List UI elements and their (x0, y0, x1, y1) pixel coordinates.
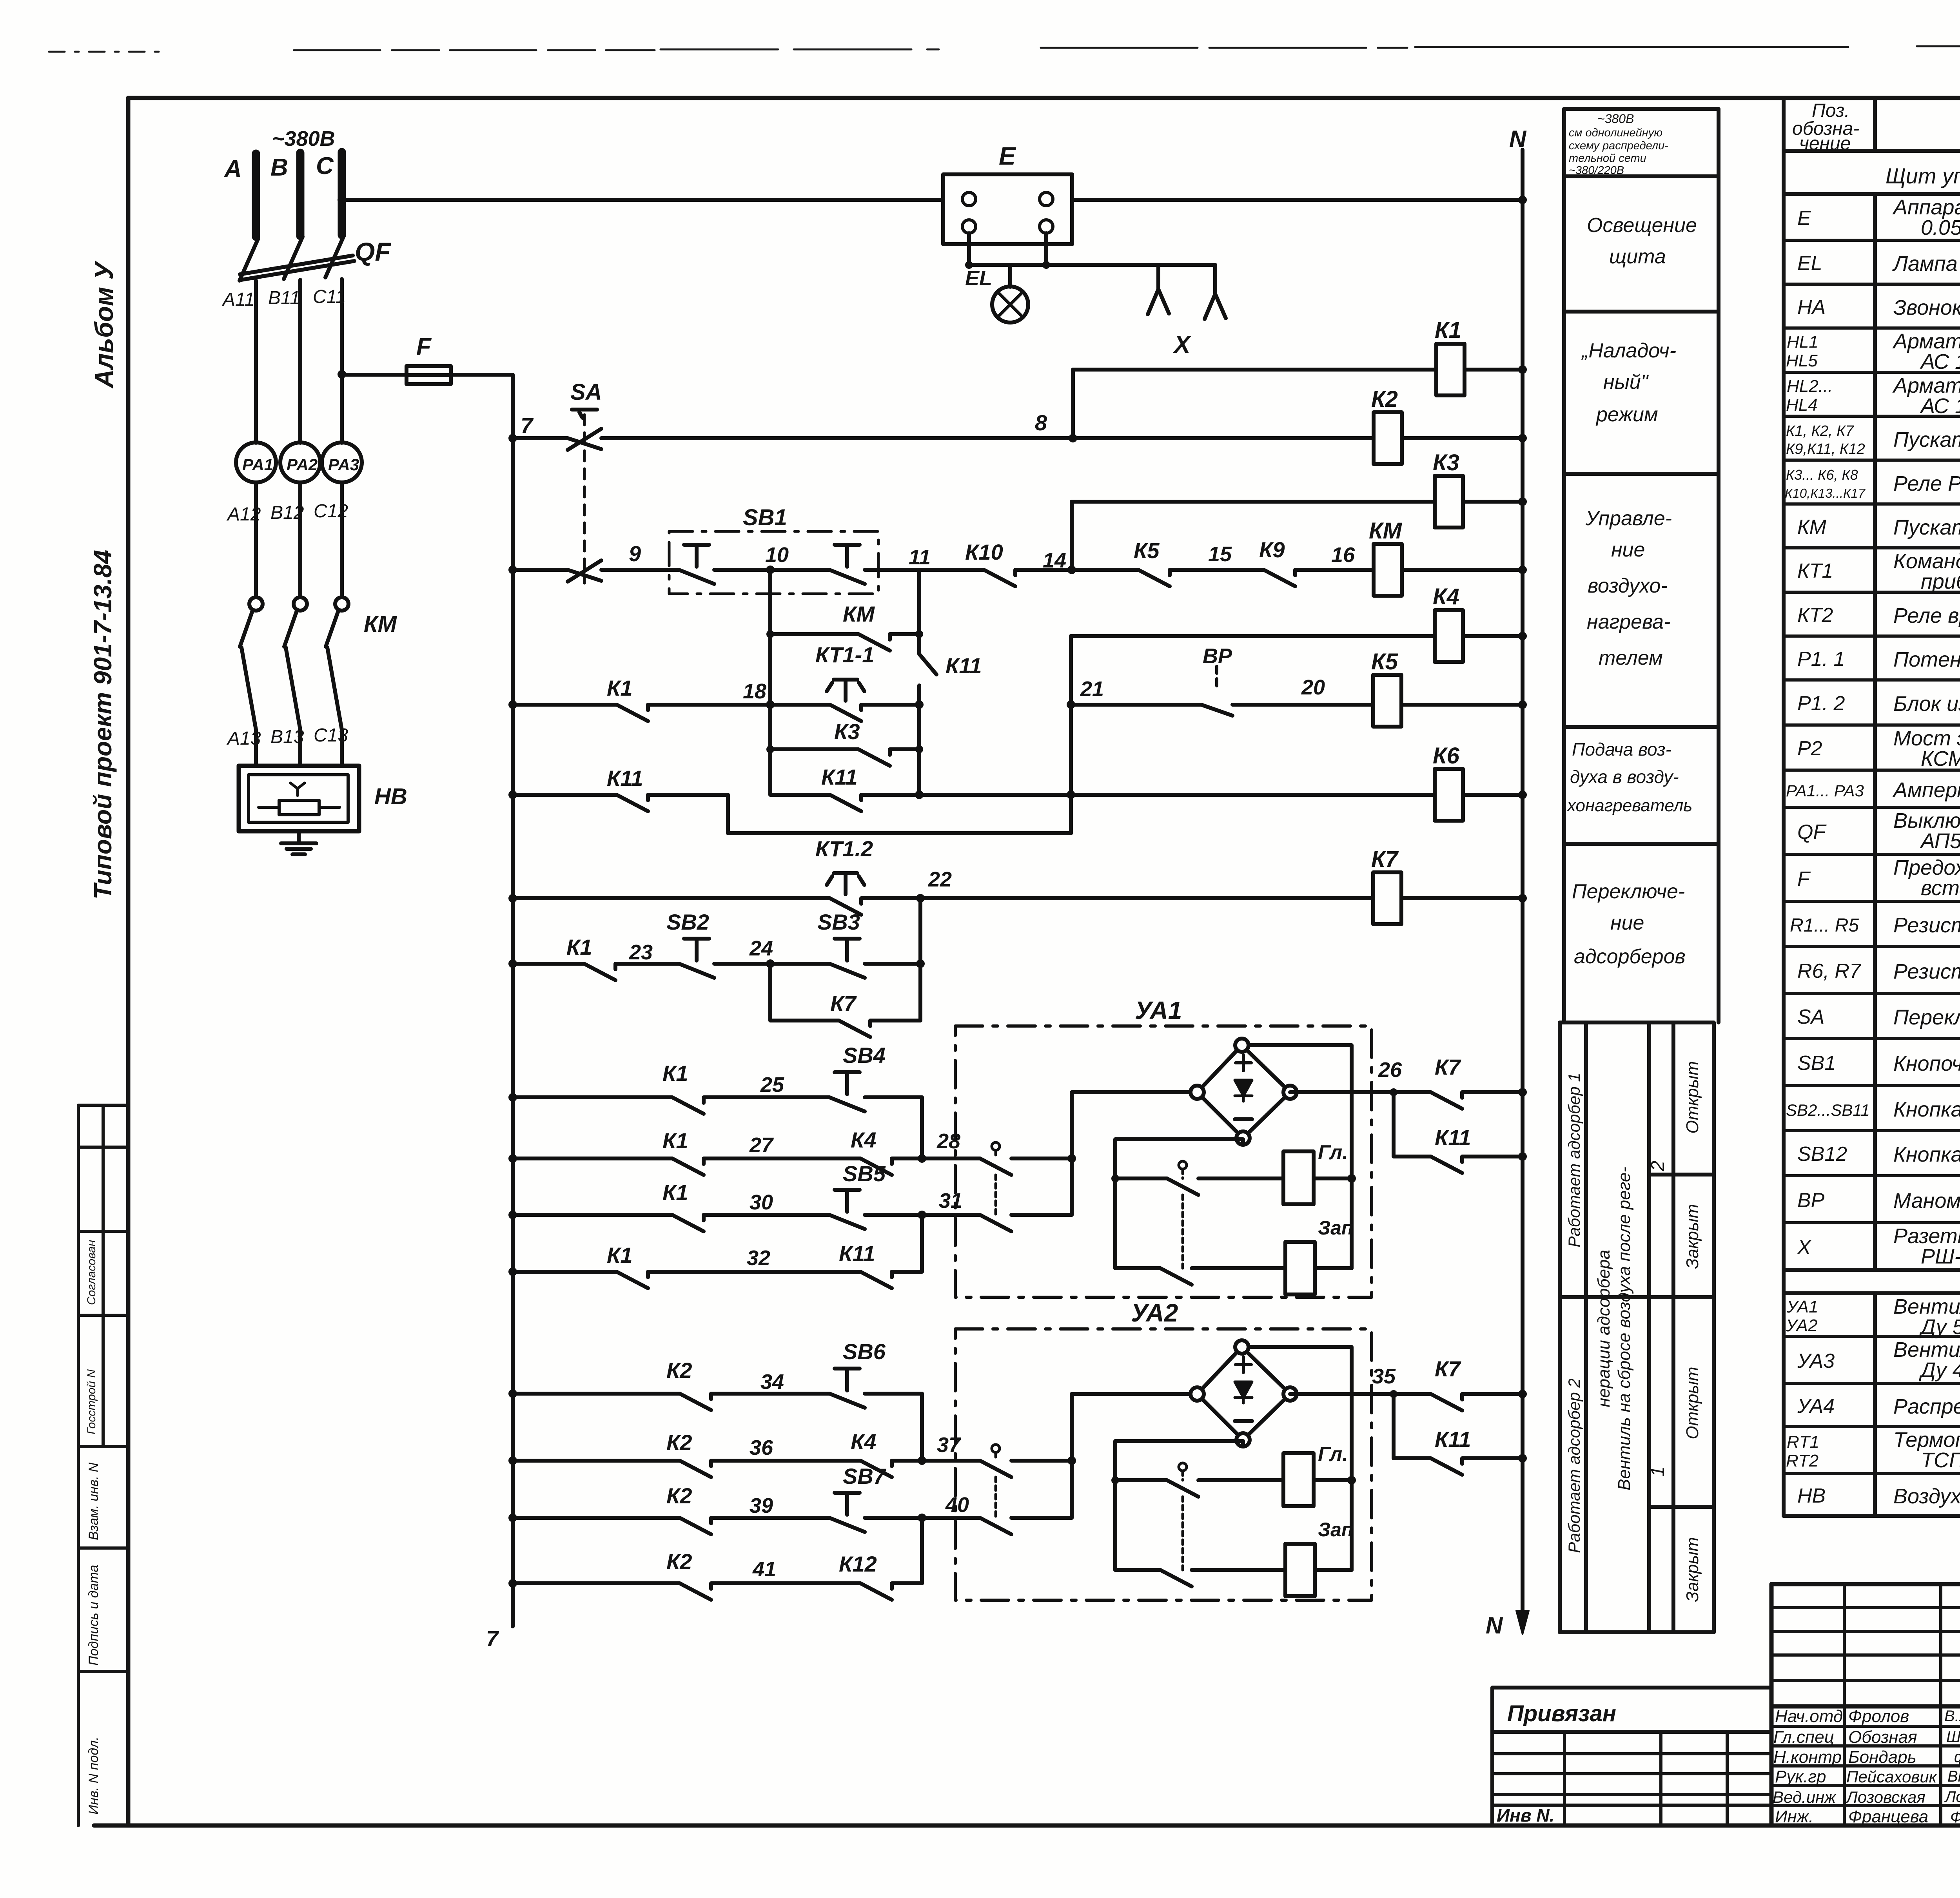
svg-text:Инв N.: Инв N. (1497, 1805, 1554, 1825)
svg-text:С: С (316, 152, 334, 179)
svg-text:SВ4: SВ4 (843, 1043, 886, 1068)
svg-text:Привязан: Привязан (1507, 1701, 1616, 1726)
ammeter PA1 (236, 442, 276, 482)
svg-text:ТСП-5071 гр21 5Ц2 821 320-: ТСП-5071 гр21 5Ц2 821 320-04 (1921, 1448, 1960, 1472)
phase bus B (296, 153, 305, 236)
phase bus A (252, 154, 260, 237)
svg-text:КТ1-1: КТ1-1 (815, 642, 874, 667)
svg-text:К2: К2 (666, 1483, 692, 1508)
rung 41: K12 row (513, 1583, 922, 1600)
svg-text:Выключатель автоматический: Выключатель автоматический (1893, 809, 1960, 832)
svg-text:Переключе-: Переключе- (1572, 880, 1685, 903)
rung 23: SB2 SB3 row (513, 964, 920, 980)
air heater HB box (239, 766, 359, 831)
rung 36: K4 row into YA2 (513, 1461, 922, 1477)
svg-text:26: 26 (1378, 1058, 1402, 1082)
svg-text:SА: SА (570, 379, 602, 405)
svg-text:SВ12: SВ12 (1797, 1143, 1847, 1166)
svg-text:режим: режим (1595, 403, 1658, 426)
svg-text:КТ2: КТ2 (1797, 604, 1833, 627)
svg-text:ВР: ВР (1797, 1189, 1825, 1212)
svg-text:Бондарь: Бондарь (1848, 1748, 1916, 1767)
svg-text:НВ: НВ (1797, 1485, 1826, 1507)
svg-text:Потенциометр самопишущий 5К2.7: Потенциометр самопишущий 5К2.710.006 (1893, 648, 1960, 671)
button SB7 (829, 1493, 865, 1532)
svg-text:Манометр ЭКМ-1У 0-16кг/с: Манометр ЭКМ-1У 0-16кг/см2 (1893, 1189, 1960, 1213)
svg-text:41: 41 (752, 1557, 776, 1581)
contact K7 output YA2 (1431, 1394, 1462, 1410)
svg-text:15: 15 (1208, 542, 1232, 566)
svg-text:40: 40 (945, 1493, 969, 1517)
svg-text:Термопреобразователь сопротив: Термопреобразователь сопротивления (1893, 1428, 1960, 1452)
diode symbol YA2 (1235, 1382, 1252, 1403)
svg-text:SВ5: SВ5 (843, 1161, 886, 1186)
svg-text:схему распредели-: схему распредели- (1569, 140, 1668, 152)
svg-text:Зап: Зап (1318, 1519, 1353, 1541)
svg-text:хонагреватель: хонагреватель (1566, 796, 1692, 815)
switch SA contact 1 (568, 429, 601, 450)
rung 25: SB4 row (513, 1097, 922, 1114)
vertical SB7 row down (920, 1518, 924, 1583)
svg-text:EL: EL (965, 266, 992, 290)
svg-text:SВ7: SВ7 (843, 1464, 887, 1488)
svg-text:35: 35 (1372, 1365, 1396, 1388)
wire C junction to fuse (342, 373, 407, 377)
riser node8 to K1 row (1071, 370, 1075, 438)
svg-text:К12: К12 (839, 1552, 877, 1576)
svg-text:К11: К11 (839, 1241, 875, 1266)
svg-text:Инв. N подл.: Инв. N подл. (86, 1737, 101, 1815)
svg-text:Лозовская: Лозовская (1845, 1788, 1926, 1806)
svg-text:вставкой ВТФ-6: вставкой ВТФ-6 (1921, 876, 1960, 900)
node 10 (766, 566, 775, 574)
svg-text:КМ: КМ (1797, 516, 1827, 538)
vertical from node 11 down with contact K11 (919, 570, 936, 795)
YA2 solenoid loop from bridge bottom (1115, 1441, 1243, 1570)
svg-text:Резистор ПЭВ-25 2.4кОм±10%: Резистор ПЭВ-25 2.4кОм±10% (1893, 914, 1960, 937)
svg-text:В12: В12 (270, 502, 304, 523)
svg-text:RТ2: RТ2 (1786, 1451, 1818, 1470)
rung K4 coil row (1071, 634, 1523, 638)
minus sign YA2 (1235, 1419, 1252, 1423)
svg-text:нагрева-: нагрева- (1587, 611, 1670, 633)
svg-text:Х: Х (1173, 331, 1192, 358)
svg-text:Гл.спец: Гл.спец (1773, 1728, 1834, 1747)
svg-text:HL4: HL4 (1786, 395, 1818, 415)
svg-text:7: 7 (521, 413, 534, 438)
svg-text:QF: QF (355, 237, 391, 266)
rung 8: SA selector row (513, 438, 1523, 449)
heating element inside HB (279, 800, 319, 815)
svg-text:~380В: ~380В (1597, 112, 1634, 126)
svg-text:~380В: ~380В (272, 127, 335, 150)
coil Zap YA1 (1285, 1242, 1315, 1294)
svg-text:ВР: ВР (1203, 644, 1232, 668)
svg-text:К2: К2 (1371, 386, 1398, 412)
svg-text:37: 37 (937, 1433, 962, 1457)
svg-text:см однолинейную: см однолинейную (1569, 127, 1662, 139)
svg-text:В: В (270, 154, 288, 181)
svg-text:АП50Б-3МУ3 Iр=40А: АП50Б-3МУ3 Iр=40А (1920, 829, 1960, 853)
svg-text:N: N (1509, 126, 1527, 152)
svg-text:К1: К1 (607, 676, 633, 700)
node on C at top rail (338, 196, 346, 204)
left stamp column table (78, 1105, 128, 1825)
star symbol inside HB (290, 783, 305, 796)
branch contact K3 (770, 749, 919, 766)
YA1 lower limit switch to Zap coil (1115, 1268, 1285, 1285)
node 8 (1069, 434, 1077, 442)
svg-text:RТ1: RТ1 (1787, 1432, 1819, 1452)
svg-text:0.05кВ.А 220/36В: 0.05кВ.А 220/36В (1921, 216, 1960, 239)
svg-text:К2: К2 (666, 1549, 692, 1574)
svg-text:нерации адсорбера: нерации адсорбера (1594, 1250, 1613, 1407)
svg-text:Лампа МО36-25: Лампа МО36-25 (1892, 252, 1960, 276)
diode symbol YA1 (1235, 1080, 1252, 1101)
svg-text:Р1. 1: Р1. 1 (1797, 648, 1845, 671)
svg-text:К7: К7 (1371, 847, 1399, 872)
svg-text:R1... R5: R1... R5 (1790, 915, 1859, 936)
rung K1 coil row (1073, 368, 1523, 372)
svg-text:А11: А11 (221, 289, 255, 310)
svg-text:1: 1 (1648, 1467, 1668, 1477)
svg-text:Закрыт: Закрыт (1683, 1204, 1702, 1269)
svg-text:Р2: Р2 (1797, 737, 1822, 760)
svg-text:Звонок громкого боя МЗ-1, ~2: Звонок громкого боя МЗ-1, ~220В (1893, 296, 1960, 319)
svg-text:С12: С12 (314, 501, 348, 522)
left control bus (node 7) (511, 439, 515, 1626)
rung K3 coil row (1072, 500, 1523, 504)
phase bus C (338, 152, 346, 235)
svg-text:Фр: Фр (1950, 1809, 1960, 1826)
YA1 solenoid loop from bridge bottom (1115, 1139, 1243, 1268)
svg-text:21: 21 (1080, 677, 1104, 701)
svg-text:К1: К1 (607, 1243, 633, 1267)
svg-text:С13: С13 (314, 725, 348, 746)
svg-text:фф: фф (1954, 1748, 1960, 1766)
svg-text:HL5: HL5 (1786, 351, 1818, 370)
svg-text:Разетка штепсельная: Разетка штепсельная (1893, 1224, 1960, 1248)
svg-text:К5: К5 (1371, 649, 1398, 674)
svg-text:РА1... РА3: РА1... РА3 (1786, 781, 1864, 800)
button SB6 (829, 1369, 865, 1408)
svg-text:УА4: УА4 (1797, 1395, 1835, 1418)
branch K7 contact under SB row (770, 964, 920, 1037)
valve unit YA1 boundary (955, 1026, 1372, 1297)
svg-text:КМ: КМ (364, 611, 397, 637)
switch SA contact 2 (568, 560, 601, 582)
fuse F (407, 366, 451, 384)
YA2 inlet contact lower (922, 1518, 1072, 1534)
svg-text:24: 24 (749, 937, 773, 960)
svg-text:HL1: HL1 (1787, 332, 1818, 352)
svg-text:Вентиль запорный 15кч 888 С: Вентиль запорный 15кч 888 СВМ (1893, 1338, 1960, 1361)
svg-text:Е: Е (999, 142, 1016, 170)
svg-text:УА2: УА2 (1786, 1316, 1817, 1335)
svg-text:УА3: УА3 (1797, 1350, 1835, 1372)
coil K5 (1373, 675, 1401, 727)
contactor KM main contacts (3 poles) (240, 597, 348, 766)
svg-text:КТ1.2: КТ1.2 (815, 836, 873, 861)
svg-text:К3: К3 (834, 719, 860, 744)
svg-text:18: 18 (743, 680, 766, 703)
svg-text:К11: К11 (1435, 1427, 1471, 1452)
svg-text:SВ1: SВ1 (1797, 1052, 1836, 1075)
plus sign YA1 (1236, 1055, 1251, 1071)
svg-text:Переключатель ПЕ-021 исп.1: Переключатель ПЕ-021 исп.1 (1893, 1006, 1960, 1029)
svg-text:16: 16 (1331, 543, 1355, 567)
ammeter PA2 (280, 442, 320, 482)
svg-text:23: 23 (629, 941, 653, 964)
svg-text:Кнопочный пост ПКЕ-112-2У3: Кнопочный пост ПКЕ-112-2У3 (1893, 1052, 1960, 1075)
svg-text:10: 10 (765, 543, 789, 567)
svg-text:Реле РПУ2-362203У3 ~ 220В: Реле РПУ2-362203У3 ~ 220В (1893, 472, 1960, 495)
svg-text:Н.контр: Н.контр (1773, 1748, 1842, 1767)
button SB4 (829, 1072, 865, 1111)
svg-text:Альбом У: Альбом У (89, 261, 118, 389)
svg-text:К2: К2 (666, 1430, 692, 1455)
coil K7 (1373, 872, 1401, 924)
vertical SB6 row to node 37 (920, 1394, 924, 1461)
wire fuse to left ladder bus (451, 375, 513, 439)
svg-text:Реле времени РВП72-3222У4 ~2: Реле времени РВП72-3222У4 ~220В (1893, 604, 1960, 627)
neutral bus N (1521, 150, 1524, 1615)
vertical from node 10 down (768, 570, 772, 795)
YA1 internal riser (1070, 1092, 1074, 1215)
svg-text:телем: телем (1599, 647, 1663, 669)
svg-text:SВ6: SВ6 (843, 1339, 886, 1364)
svg-text:Предохранитель ППТ-10 с плав: Предохранитель ППТ-10 с плавкой (1893, 856, 1960, 879)
svg-text:Аппарат местного освещения АМО: Аппарат местного освещения АМО-4У4 (1892, 196, 1960, 219)
wire to socket X (1046, 263, 1215, 267)
YA1 limit switch to Gl coil (1115, 1178, 1283, 1195)
svg-text:Взам. инв. N: Взам. инв. N (86, 1463, 101, 1540)
svg-text:Распределитель 23кч 802р З Ду: Распределитель 23кч 802р З Ду6 ~220В (1893, 1395, 1960, 1418)
svg-text:воздухо-: воздухо- (1588, 575, 1668, 597)
svg-text:К11: К11 (946, 653, 982, 678)
YA2 output wire right (1290, 1392, 1523, 1396)
YA2 lower limit switch to Zap coil (1115, 1570, 1285, 1586)
push-button block SB1 (669, 531, 878, 594)
rectifier bridge YA1 (1191, 1039, 1297, 1145)
svg-text:Пейсаховик: Пейсаховик (1846, 1767, 1938, 1786)
svg-text:тельной сети: тельной сети (1569, 152, 1646, 165)
svg-text:9: 9 (629, 541, 641, 566)
svg-text:Гл.: Гл. (1318, 1443, 1348, 1466)
svg-text:Мост электронный автоматическ: Мост электронный автоматический (1893, 727, 1960, 750)
svg-text:Францева: Францева (1848, 1807, 1928, 1826)
svg-text:К1: К1 (662, 1180, 688, 1205)
svg-text:Вño: Вño (1947, 1768, 1960, 1785)
svg-text:2: 2 (1648, 1161, 1668, 1172)
rung 30: SB5 row into YA1 (513, 1215, 922, 1231)
svg-text:К11: К11 (607, 766, 643, 790)
svg-text:25: 25 (760, 1073, 784, 1097)
ammeter PA3 (322, 442, 362, 482)
socket X prong 1 (1148, 265, 1169, 314)
svg-text:N: N (1486, 1612, 1503, 1639)
coil K2 (1374, 412, 1402, 464)
functional label column grid (1564, 109, 1719, 1022)
rung 27: K4 row into YA1 (513, 1158, 922, 1175)
svg-text:РА2: РА2 (287, 455, 318, 474)
coil Zap YA2 (1285, 1544, 1315, 1596)
svg-text:8: 8 (1035, 410, 1047, 435)
button SB5 (829, 1190, 865, 1229)
svg-text:R6, R7: R6, R7 (1797, 960, 1862, 983)
svg-text:УА2: УА2 (1131, 1299, 1178, 1327)
svg-text:К9,К11, К12: К9,К11, К12 (1786, 441, 1865, 457)
svg-text:прибор КЭП-12У ~220В: прибор КЭП-12У ~220В (1921, 570, 1960, 593)
svg-text:Блок измерительный 5К2.840.01: Блок измерительный 5К2.840.019 (1893, 692, 1960, 716)
svg-text:Подпись и дата: Подпись и дата (86, 1565, 101, 1666)
adsorber state sub-table (1560, 1022, 1714, 1632)
svg-text:Кнопка управления КЕ-011 исп: Кнопка управления КЕ-011 исп.2 (1893, 1098, 1960, 1121)
svg-text:Типовой проект 901-7-13.84: Типовой проект 901-7-13.84 (89, 550, 117, 899)
node 40 (918, 1514, 926, 1522)
svg-text:ние: ние (1610, 912, 1644, 934)
svg-text:SВ1: SВ1 (743, 505, 787, 530)
svg-text:АС 12013У1: АС 12013У1 (1920, 350, 1960, 373)
branch contact K11 (770, 795, 1523, 811)
switch SA bar and stem (572, 410, 597, 418)
svg-text:14: 14 (1043, 549, 1066, 572)
svg-text:С11: С11 (313, 286, 346, 307)
vertical SB5 row down (920, 1215, 924, 1272)
svg-text:F: F (416, 333, 432, 360)
svg-text:А12: А12 (226, 504, 261, 525)
svg-text:Е: Е (1797, 207, 1811, 230)
svg-text:Обозная: Обозная (1848, 1728, 1917, 1747)
coil Gl YA2 (1283, 1453, 1314, 1506)
svg-text:20: 20 (1301, 676, 1325, 699)
YA1 inlet contact upper (922, 1158, 1072, 1175)
svg-text:К7: К7 (1435, 1356, 1461, 1381)
svg-text:В13: В13 (270, 727, 304, 747)
svg-text:КМ: КМ (843, 602, 875, 626)
wire from E secondary terminals (969, 233, 1046, 265)
svg-text:Арматура светосигнальная крас: Арматура светосигнальная красная (1892, 374, 1960, 397)
svg-text:7: 7 (486, 1626, 499, 1651)
svg-text:В11: В11 (268, 288, 300, 308)
YA2 internal riser (1070, 1394, 1074, 1518)
svg-text:К2: К2 (666, 1358, 692, 1383)
svg-text:Согласован: Согласован (85, 1240, 98, 1305)
svg-text:КТ1: КТ1 (1797, 560, 1833, 582)
circuit breaker QF (3 poles) (240, 235, 354, 443)
svg-text:Освещение: Освещение (1587, 214, 1697, 237)
timer contact KT1-1 (827, 680, 864, 701)
vertical node22 down (918, 898, 922, 1021)
ground symbol under HB (281, 831, 316, 854)
svg-text:SВ2...SВ11: SВ2...SВ11 (1786, 1101, 1870, 1119)
pressure switch BP (1215, 666, 1218, 690)
svg-text:К4: К4 (1433, 584, 1459, 609)
svg-text:32: 32 (747, 1246, 770, 1270)
rung 18: K1 holding with KT1-1 (513, 705, 919, 721)
svg-text:щита: щита (1609, 245, 1666, 268)
SB1 button 1 (679, 545, 714, 584)
svg-text:31: 31 (939, 1189, 962, 1213)
svg-text:SВ2: SВ2 (666, 910, 709, 934)
svg-text:К4: К4 (851, 1128, 877, 1152)
svg-text:КСМ2-028: КСМ2-028 (1921, 747, 1960, 770)
svg-text:К1, К2, К7: К1, К2, К7 (1786, 423, 1855, 439)
svg-text:духа в возду-: духа в возду- (1570, 767, 1679, 787)
svg-text:Щит управления и контроля(комп: Щит управления и контроля(комплект блока… (1886, 163, 1960, 188)
svg-text:HL2...: HL2... (1787, 377, 1833, 396)
svg-text:39: 39 (750, 1494, 773, 1517)
privyazan table (1492, 1688, 1771, 1825)
svg-text:К6: К6 (1433, 743, 1460, 769)
svg-text:К11: К11 (821, 765, 858, 789)
svg-text:А13: А13 (226, 728, 261, 749)
svg-text:36: 36 (750, 1436, 773, 1459)
rectifier bridge YA2 (1191, 1340, 1297, 1447)
rung 9: SB1 row to KM coil (513, 570, 1523, 586)
svg-text:Зап: Зап (1318, 1217, 1353, 1239)
YA2 wire to rectifier (1072, 1392, 1191, 1396)
svg-text:Пускатель магнитный ПМЕ-071: Пускатель магнитный ПМЕ-071 ~220В (1893, 428, 1960, 451)
svg-text:Гл.: Гл. (1318, 1141, 1348, 1164)
N bus bottom arrow (1516, 1611, 1529, 1634)
svg-text:А: А (223, 156, 242, 183)
plus sign YA2 (1236, 1357, 1251, 1372)
svg-text:ный": ный" (1603, 371, 1649, 393)
lighting transformer E box (943, 174, 1072, 244)
svg-text:НВ: НВ (374, 784, 407, 809)
coil K4 (1435, 610, 1463, 662)
svg-text:27: 27 (749, 1133, 774, 1157)
svg-text:Работает адсорбер 2: Работает адсорбер 2 (1565, 1378, 1583, 1553)
svg-text:К1: К1 (662, 1128, 688, 1153)
coil Gl YA1 (1283, 1151, 1314, 1204)
SB1 button 2 (829, 545, 865, 584)
svg-text:РА1: РА1 (242, 455, 273, 474)
svg-text:Вентиль запарный 15кч 89: Вентиль запарный 15кч 892п (1893, 1295, 1960, 1318)
svg-text:К10: К10 (965, 540, 1003, 564)
svg-text:РА3: РА3 (328, 455, 359, 474)
svg-text:Госстрой N: Госстрой N (85, 1369, 98, 1434)
svg-text:К3... К6, К8: К3... К6, К8 (1786, 467, 1858, 483)
svg-text:Лоз: Лоз (1944, 1788, 1960, 1806)
YA2 limit switch to Gl coil (1115, 1480, 1283, 1497)
svg-text:22: 22 (928, 868, 952, 891)
rung 22: KT1.2 to K7 coil (513, 898, 1523, 915)
svg-text:Х: Х (1797, 1236, 1812, 1259)
svg-text:Вентиль на сбросе воздуха посл: Вентиль на сбросе воздуха после реге- (1615, 1167, 1634, 1490)
svg-text:адсорберов: адсорберов (1574, 945, 1686, 968)
valve unit YA2 boundary (955, 1329, 1372, 1600)
YA1 output wire right (1290, 1090, 1523, 1094)
svg-text:Нач.отд: Нач.отд (1775, 1707, 1843, 1726)
svg-text:Резистор С5-37 5Вт 91: Резистор С5-37 5Вт 910 Ом (1893, 960, 1960, 983)
svg-text:Арматура светосигнальная зеле: Арматура светосигнальная зеленая (1892, 330, 1960, 353)
svg-text:Открыт: Открыт (1683, 1061, 1702, 1133)
svg-text:К1: К1 (662, 1061, 688, 1086)
parts table grid (1784, 98, 1960, 1516)
svg-text:Работает адсорбер 1: Работает адсорбер 1 (1565, 1073, 1583, 1247)
socket X prong 2 (1205, 265, 1226, 319)
svg-text:Закрыт: Закрыт (1683, 1537, 1702, 1602)
svg-text:11: 11 (909, 546, 931, 569)
svg-text:К9: К9 (1259, 537, 1285, 562)
svg-text:Воздухонагреватель 24кВт: Воздухонагреватель 24кВт (1893, 1485, 1960, 1508)
wires below ammeters (256, 482, 342, 597)
node 24 (766, 959, 775, 968)
svg-text:Вед.инж: Вед.инж (1773, 1788, 1837, 1806)
timer contact KT1.2 (827, 873, 864, 894)
